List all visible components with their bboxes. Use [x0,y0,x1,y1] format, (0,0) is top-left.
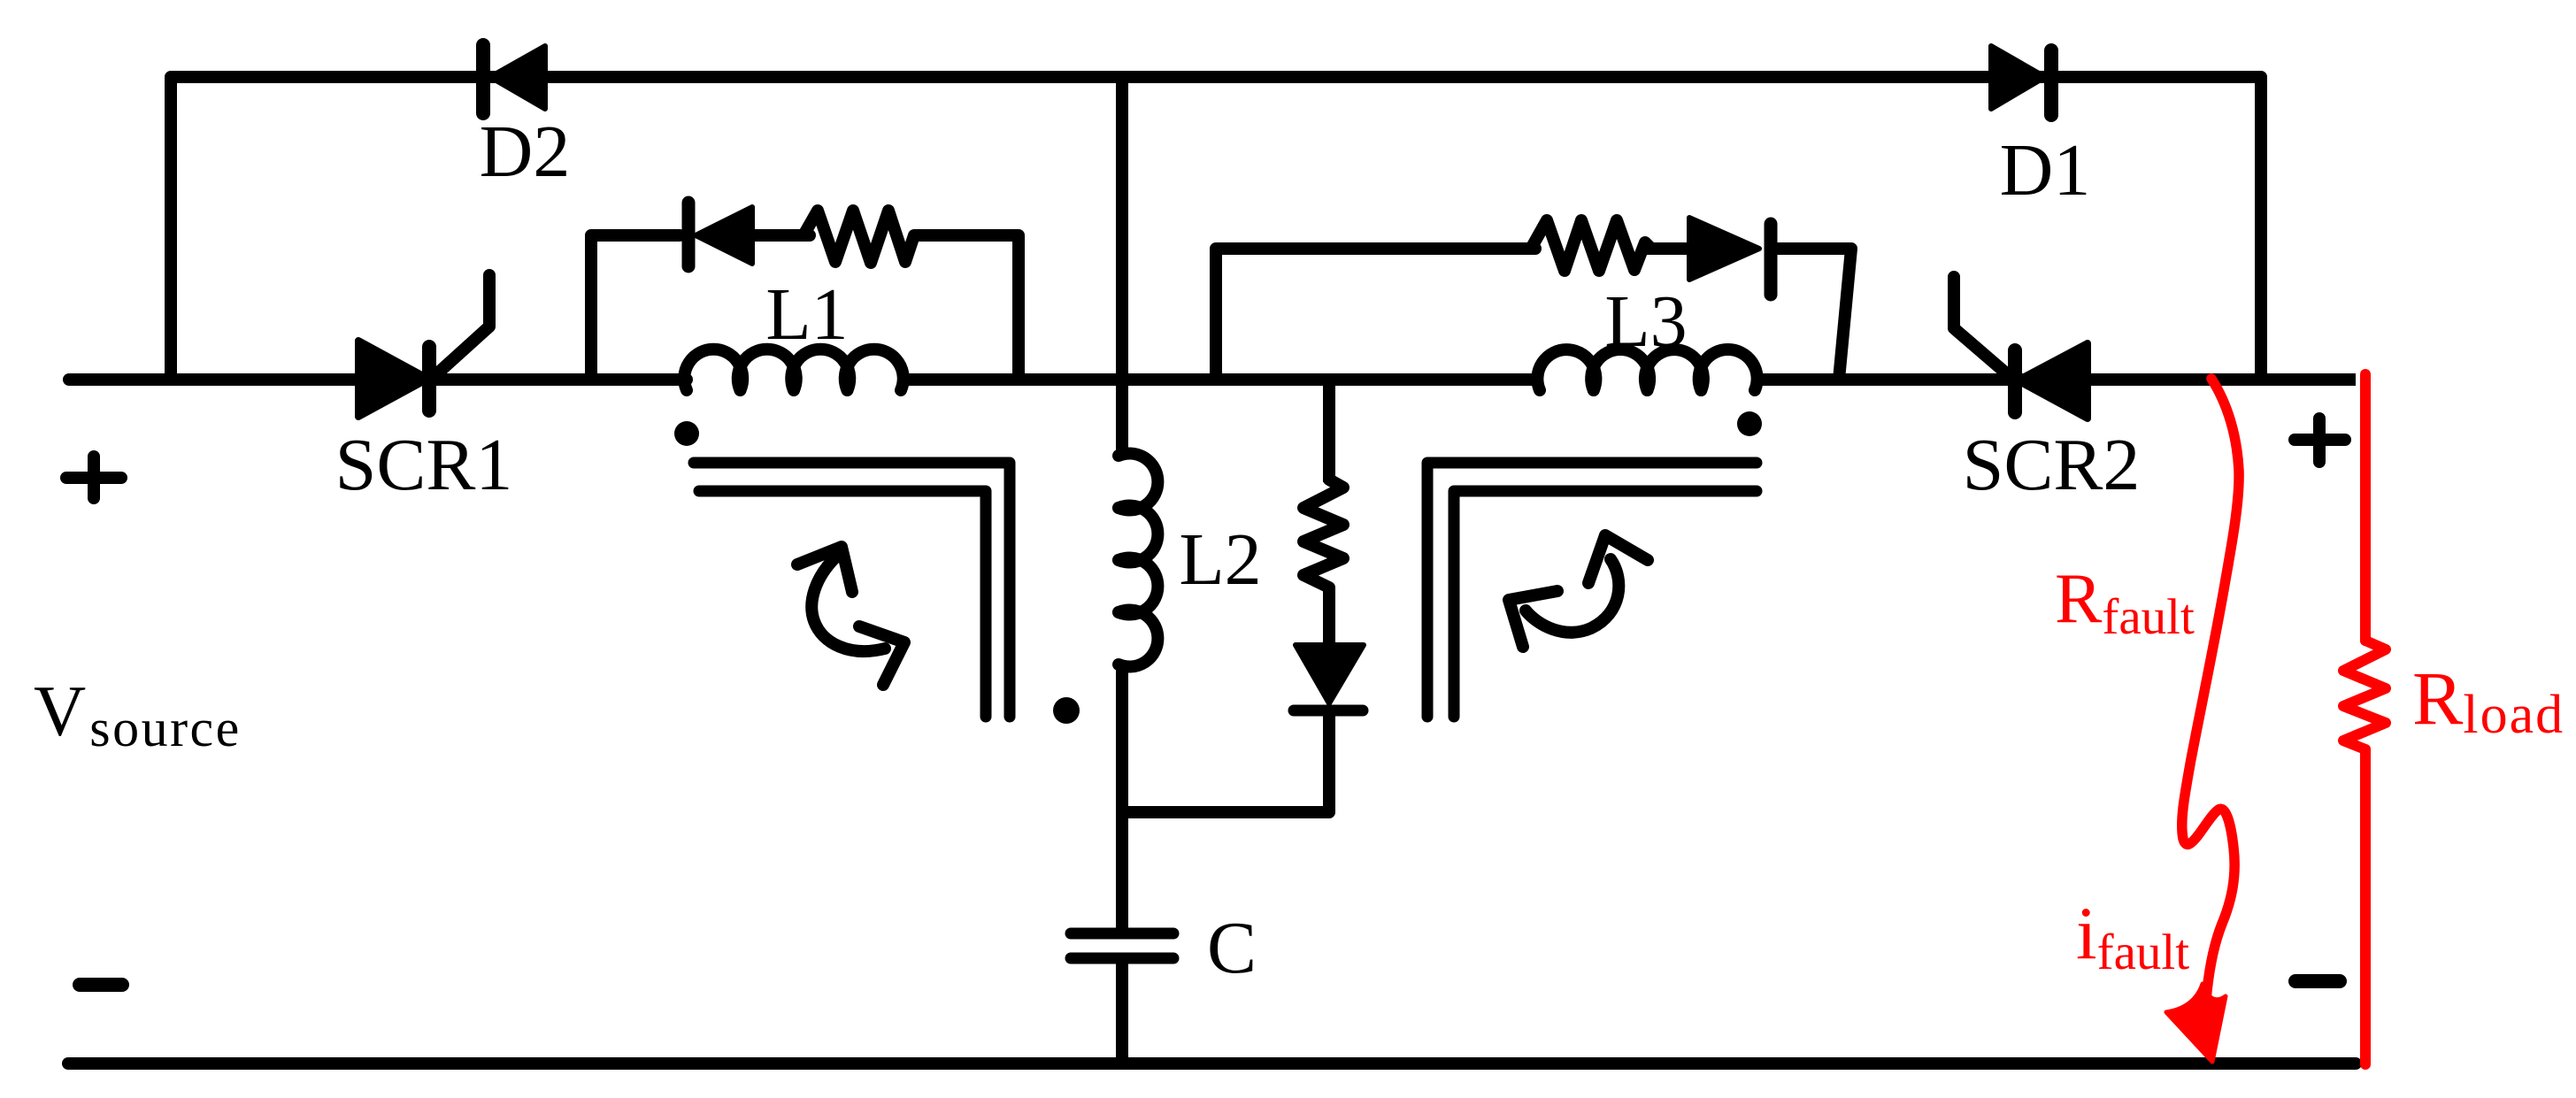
wire L1 snubber left branch [591,235,680,380]
wire L3 snubber right branch [1777,249,1851,380]
svg-text:D1: D1 [2000,129,2091,211]
wire L3 snubber middle [1645,242,1689,255]
wire L3 snubber left branch [1216,249,1535,380]
wire main middle rail left segment [69,373,687,386]
plus terminal right [2295,418,2345,462]
node dot L2 winding [1053,697,1080,724]
wire center vertical (L2 branch top) [1116,77,1128,456]
node dot L3 winding [1737,411,1762,436]
resistor in center branch [1303,480,1343,587]
diode in center branch [1294,645,1364,710]
wire resistor to diode [1323,587,1335,645]
thyristor SCR2 [1954,277,2088,418]
wire L1 snubber middle (diode to resistor) [752,229,810,242]
diode in L1 snubber [688,203,752,266]
diode D2 [483,45,545,113]
svg-text:D2: D2 [480,111,571,193]
inductor L2 [1119,454,1157,667]
svg-text:L1: L1 [765,273,848,356]
fault current arrowhead (red) [2166,984,2226,1062]
wire diode branch bottom and connector to center [1122,716,1329,812]
thyristor SCR1 [358,275,489,417]
capacitor C [1071,933,1173,958]
resistor in L3 snubber [1531,220,1651,271]
inductor L1 [684,349,903,390]
minus terminal right [2295,974,2340,988]
rotation arrow left [797,547,904,685]
resistor in L1 snubber [804,211,914,263]
wire R_load branch (red) [2343,374,2386,1064]
wire resistor-diode branch top [1323,380,1335,482]
rotation arrow right [1509,535,1648,647]
wire center vertical below L2 to capacitor [1116,663,1128,928]
transformer core left [694,463,1010,717]
wire main middle rail center segment [901,373,1540,386]
plus terminal left [66,457,121,498]
resistor R_load (red) [2343,641,2386,749]
wire R_load branch bottom (red) [2360,749,2371,1064]
minus terminal left [80,978,122,992]
fault path wavy wire (red) [2182,379,2239,1014]
svg-text:SCR1: SCR1 [335,424,513,506]
diode in L3 snubber [1689,218,1771,295]
wire bottom rail [68,1057,2356,1070]
node dot L1 winding [674,421,699,446]
diode D1 [1991,46,2051,115]
svg-text:C: C [1207,907,1257,989]
wire L1 snubber right branch [915,235,1019,380]
wire main middle rail right segment [1755,373,2356,386]
inductor L3 [1537,349,1757,390]
wire top rail [171,77,2261,380]
wire capacitor bottom lead [1116,964,1128,1063]
svg-text:L2: L2 [1179,518,1261,601]
svg-text:SCR2: SCR2 [1963,424,2141,506]
transformer core right [1427,463,1757,717]
svg-text:L3: L3 [1604,280,1687,363]
